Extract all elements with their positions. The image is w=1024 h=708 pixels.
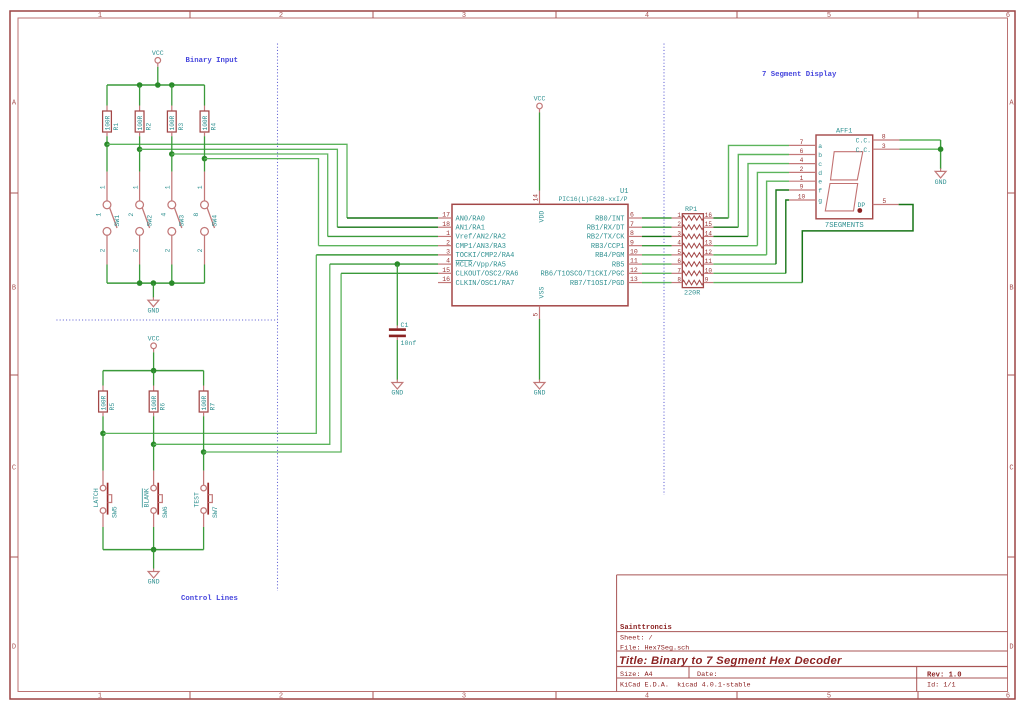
svg-text:GND: GND — [534, 390, 546, 397]
pin 2 CMP1/AN3/RA3 — [438, 239, 506, 251]
svg-text:4: 4 — [677, 240, 681, 247]
wire riser to segment d — [757, 172, 789, 245]
svg-text:C: C — [12, 465, 16, 473]
pin 8 RB2/TX/CK — [587, 230, 642, 242]
wire node to switch SW2 — [139, 149, 141, 171]
svg-text:RB3/CCP1: RB3/CCP1 — [591, 243, 625, 251]
pin stub below SW7 — [203, 513, 205, 527]
wire bottom GND rail (control) — [103, 549, 204, 551]
wire U1 pin 13 to RP1 pin 8 — [642, 282, 672, 284]
svg-text:8: 8 — [193, 213, 200, 217]
junction on control GND rail — [151, 547, 157, 553]
svg-text:10: 10 — [705, 267, 713, 274]
svg-text:2: 2 — [165, 248, 172, 252]
svg-text:Rev: 1.0: Rev: 1.0 — [927, 672, 962, 680]
wire rail to resistor R1 — [106, 85, 108, 106]
svg-text:RB6/T1OSCO/T1CKI/PGC: RB6/T1OSCO/T1CKI/PGC — [540, 271, 624, 279]
svg-text:100R: 100R — [137, 115, 144, 130]
svg-text:GND: GND — [147, 308, 159, 315]
pin 6 RB0/INT — [595, 212, 642, 224]
svg-text:B: B — [12, 285, 16, 293]
junction C.C. node — [938, 146, 944, 152]
svg-text:U1: U1 — [620, 188, 628, 196]
wire node to push button SW5 — [102, 433, 104, 470]
capacitor C1 10nf — [389, 322, 416, 347]
svg-text:1: 1 — [197, 185, 204, 189]
wire into U1 pin 2 — [319, 245, 439, 247]
junction column R1/SW1 node — [104, 142, 110, 148]
svg-text:100R: 100R — [104, 115, 111, 130]
wire U1 pin 7 to RP1 pin 2 — [642, 226, 672, 228]
svg-text:VCC: VCC — [534, 96, 546, 103]
wire push button SW7 to GND rail — [203, 527, 205, 550]
svg-text:6: 6 — [800, 148, 804, 155]
wire switch SW2 to GND rail — [139, 265, 141, 284]
wire BLANK node to U1 riser — [154, 264, 330, 444]
power VCC (binary input) — [152, 50, 164, 67]
pin 17 AN0/RA0 — [438, 212, 485, 224]
svg-text:C.C.: C.C. — [856, 138, 871, 145]
svg-text:6: 6 — [677, 258, 681, 265]
junction node BLANK — [151, 442, 157, 448]
pin 1 Vref/AN2/RA2 — [438, 230, 506, 242]
title block — [617, 575, 1008, 692]
switch SW1 (SPST, weight 1) — [96, 172, 121, 265]
wire push button SW6 to GND rail — [153, 527, 155, 550]
wire resistor R3 to node — [171, 136, 173, 154]
svg-text:6: 6 — [1006, 12, 1010, 20]
svg-text:CLKOUT/OSC2/RA6: CLKOUT/OSC2/RA6 — [456, 271, 519, 279]
svg-text:15: 15 — [442, 267, 450, 274]
svg-text:1: 1 — [165, 185, 172, 189]
svg-text:RP1: RP1 — [685, 206, 697, 214]
svg-text:B: B — [1009, 285, 1013, 293]
pin 4 segment c — [789, 157, 822, 168]
svg-text:1: 1 — [100, 185, 107, 189]
svg-text:C: C — [1009, 465, 1013, 473]
wire riser to segment b — [738, 155, 789, 228]
svg-text:4: 4 — [645, 12, 649, 20]
svg-text:17: 17 — [442, 212, 450, 219]
pin 8 C.C. (top) — [856, 134, 900, 145]
wire riser to segment a — [729, 145, 790, 218]
svg-text:R1: R1 — [113, 123, 120, 131]
svg-text:5: 5 — [882, 198, 886, 205]
svg-text:Date:: Date: — [697, 671, 717, 679]
svg-text:e: e — [818, 179, 822, 186]
svg-text:4: 4 — [645, 693, 649, 701]
svg-text:RB0/INT: RB0/INT — [595, 215, 624, 223]
svg-text:100R: 100R — [100, 395, 107, 410]
svg-text:R4: R4 — [211, 123, 218, 131]
wire top VCC rail (control) — [103, 370, 204, 372]
wire binary node 8 to U1 riser — [205, 159, 319, 246]
switch SW2 (SPST, weight 2) — [128, 172, 153, 265]
svg-text:2: 2 — [677, 221, 681, 228]
svg-text:5: 5 — [827, 12, 831, 20]
svg-text:c: c — [818, 161, 822, 168]
decimal point dot — [857, 208, 862, 213]
wire RP1 pin 15 to riser b — [713, 226, 738, 228]
svg-text:R2: R2 — [146, 123, 153, 131]
svg-text:5: 5 — [827, 693, 831, 701]
svg-text:100R: 100R — [151, 395, 158, 410]
svg-text:GND: GND — [391, 390, 403, 397]
section divider line (horizontal) — [56, 319, 277, 321]
svg-text:15: 15 — [705, 221, 713, 228]
wire GND stem (control) — [153, 550, 155, 569]
svg-text:2: 2 — [279, 12, 283, 20]
pin 13 RB7/T1OSI/PGD — [570, 276, 642, 288]
power VCC (control lines) — [148, 336, 160, 353]
wire into U1 pin 3 — [316, 254, 438, 256]
switch SW4 (SPST, weight 8) — [193, 172, 218, 265]
svg-text:Vref/AN2/RA2: Vref/AN2/RA2 — [456, 234, 506, 242]
svg-text:9: 9 — [705, 277, 709, 284]
svg-text:13: 13 — [630, 276, 638, 283]
RP1 element pin 4 / pin 13 — [672, 240, 714, 248]
svg-text:Sainttroncis: Sainttroncis — [620, 624, 672, 632]
svg-text:12: 12 — [630, 267, 638, 274]
wire U1 pin 10 to RP1 pin 5 — [642, 254, 672, 256]
svg-text:1: 1 — [98, 12, 102, 20]
wire RP1 pin 12 to riser e — [713, 254, 766, 256]
switch SW3 (SPST, weight 4) — [160, 172, 185, 265]
svg-text:14: 14 — [705, 230, 713, 237]
wire node to push button SW7 — [203, 452, 205, 471]
pin 15 CLKOUT/OSC2/RA6 — [438, 267, 519, 279]
svg-text:VCC: VCC — [148, 336, 160, 343]
svg-text:Binary Input: Binary Input — [186, 57, 239, 65]
pin 7 RB1/RX/DT — [587, 221, 642, 233]
svg-text:SW5: SW5 — [112, 506, 119, 518]
svg-text:SW4: SW4 — [211, 215, 218, 227]
wire RP1 pin 10 to riser g — [713, 272, 785, 274]
wire resistor R6 to node — [153, 416, 155, 444]
push button SW5 (LATCH) — [93, 471, 119, 518]
ground GND (control lines) — [148, 569, 160, 586]
RP1 element pin 2 / pin 15 — [672, 221, 714, 229]
svg-text:LATCH: LATCH — [93, 488, 100, 507]
svg-text:2: 2 — [197, 248, 204, 252]
pin 2 segment d — [789, 166, 822, 177]
wire U1 pin 5 to GND — [539, 319, 541, 380]
wire riser to segment f — [776, 190, 789, 264]
resistor R3 100R — [167, 106, 184, 137]
svg-text:8: 8 — [630, 230, 634, 237]
svg-text:AN1/RA1: AN1/RA1 — [456, 225, 485, 233]
svg-text:10: 10 — [630, 248, 638, 255]
svg-text:SW2: SW2 — [146, 215, 153, 227]
wire RP1 pin 9 toward DP (horizontal) — [713, 282, 802, 284]
svg-text:VDD: VDD — [539, 211, 546, 223]
svg-text:R7: R7 — [210, 403, 217, 411]
svg-text:8: 8 — [677, 277, 681, 284]
RP1 element pin 5 / pin 12 — [672, 249, 714, 257]
svg-text:3: 3 — [446, 248, 450, 255]
pin 3 C.C. (lower) — [856, 143, 900, 154]
push button SW6 (BLANK) — [142, 471, 169, 518]
wire rail to resistor R2 — [139, 85, 141, 106]
svg-text:1: 1 — [98, 693, 102, 701]
svg-text:RB4/PGM: RB4/PGM — [595, 252, 624, 260]
resistor R6 100R — [149, 386, 166, 417]
svg-text:D: D — [12, 644, 16, 652]
wire VCC stem to rail (control) — [153, 352, 155, 370]
ground GND (U1 VSS) — [534, 380, 546, 397]
junction on control VCC rail — [151, 368, 157, 374]
pin stub below SW5 — [102, 513, 104, 527]
wire U1 pin 9 to RP1 pin 4 — [642, 245, 672, 247]
svg-text:DP: DP — [858, 202, 866, 209]
ground GND (display common cathode) — [935, 168, 947, 186]
7-segment figure: lower segment loop — [825, 184, 857, 211]
pin 10 segment g — [789, 194, 822, 205]
svg-text:SW1: SW1 — [114, 215, 121, 227]
wire U1 pin 6 to RP1 pin 1 — [642, 217, 672, 219]
svg-text:100R: 100R — [169, 115, 176, 130]
pin 5 DP — [858, 198, 899, 209]
svg-text:RB2/TX/CK: RB2/TX/CK — [587, 234, 626, 242]
wire into U1 pin 4 — [330, 263, 438, 265]
svg-text:9: 9 — [800, 184, 804, 191]
wire resistor R4 to node — [204, 136, 206, 158]
svg-text:File: Hex7Seg.sch: File: Hex7Seg.sch — [620, 644, 689, 652]
svg-text:1: 1 — [446, 230, 450, 237]
svg-text:4: 4 — [160, 213, 167, 217]
svg-text:12: 12 — [705, 249, 713, 256]
resistor R5 100R — [99, 386, 116, 417]
pin 6 segment b — [789, 148, 822, 159]
svg-text:RB5: RB5 — [612, 261, 625, 269]
wire U1 pin 12 to RP1 pin 7 — [642, 272, 672, 274]
svg-text:KiCad E.D.A. kicad 4.0.1-stab: KiCad E.D.A. kicad 4.0.1-stable — [620, 681, 751, 689]
wire DP loop — [802, 205, 913, 283]
svg-text:CLKIN/OSC1/RA7: CLKIN/OSC1/RA7 — [456, 280, 515, 288]
section divider line (vertical, left) — [277, 44, 279, 592]
svg-text:Id: 1/1: Id: 1/1 — [927, 681, 956, 689]
RP1 element pin 3 / pin 14 — [672, 230, 714, 238]
svg-text:Sheet: /: Sheet: / — [620, 635, 653, 643]
svg-text:GND: GND — [148, 579, 160, 586]
resistor R7 100R — [199, 386, 216, 417]
junction column R2/SW2 node — [137, 147, 143, 153]
wire rail to resistor R7 — [203, 371, 205, 386]
svg-text:g: g — [818, 197, 822, 204]
resistor R2 100R — [135, 106, 152, 137]
ground GND (binary input) — [147, 297, 159, 314]
svg-text:C.C.: C.C. — [856, 147, 871, 154]
svg-text:SW7: SW7 — [212, 506, 219, 518]
pin 9 segment f — [789, 184, 822, 195]
wire resistor R5 to node — [102, 416, 104, 433]
svg-text:GND: GND — [935, 179, 947, 186]
wire VCC to U1 pin 14 — [539, 113, 541, 191]
wire node to switch SW1 — [106, 144, 108, 171]
svg-text:1: 1 — [96, 213, 103, 217]
svg-text:1: 1 — [800, 175, 804, 182]
svg-text:5: 5 — [677, 249, 681, 256]
wire node to switch SW3 — [171, 154, 173, 172]
svg-text:VCC: VCC — [152, 50, 164, 57]
pin 9 RB3/CCP1 — [591, 239, 642, 251]
push button SW7 (TEST) — [194, 471, 220, 518]
wire LATCH node to U1 riser — [103, 255, 316, 434]
wire rail to resistor R5 — [102, 371, 104, 386]
wire C1 bottom to GND — [396, 340, 398, 380]
svg-text:C1: C1 — [401, 322, 409, 329]
junction node LATCH — [100, 431, 106, 437]
svg-text:100R: 100R — [201, 395, 208, 410]
svg-text:RB7/T1OSI/PGD: RB7/T1OSI/PGD — [570, 280, 625, 288]
svg-text:4: 4 — [800, 157, 804, 164]
wire bottom GND rail (binary) — [107, 282, 205, 284]
wire rail to resistor R6 — [153, 371, 155, 386]
svg-text:a: a — [818, 143, 822, 150]
svg-text:D: D — [1009, 644, 1013, 652]
svg-text:AN0/RA0: AN0/RA0 — [456, 215, 485, 223]
pin 7 segment a — [789, 139, 822, 150]
svg-text:8: 8 — [882, 134, 886, 141]
svg-text:PIC16(L)F628-xxI/P: PIC16(L)F628-xxI/P — [558, 196, 627, 203]
svg-text:16: 16 — [442, 276, 450, 283]
svg-text:BLANK: BLANK — [144, 488, 151, 507]
junction on GND rail at GND stem — [151, 280, 157, 286]
resistor pack RP1 220R — [682, 206, 703, 298]
svg-text:3: 3 — [462, 12, 466, 20]
wire rail to resistor R3 — [171, 85, 173, 106]
svg-text:R5: R5 — [109, 403, 116, 411]
pin 10 RB4/PGM — [595, 248, 642, 260]
svg-text:AFF1: AFF1 — [836, 128, 852, 136]
wire C1 top — [396, 264, 398, 325]
pin stub below SW6 — [153, 513, 155, 527]
wire switch SW1 to GND rail — [106, 265, 108, 284]
pin 14 VDD (top) — [533, 191, 546, 223]
pin 5 VSS (bottom) — [533, 287, 546, 319]
resistor R1 100R — [103, 106, 120, 137]
wire binary node 4 to U1 riser — [172, 154, 328, 236]
svg-text:2: 2 — [800, 166, 804, 173]
wire riser to segment c — [748, 164, 789, 237]
svg-text:Control Lines: Control Lines — [181, 595, 238, 603]
svg-text:1: 1 — [677, 212, 681, 219]
wire into U1 pin 17 — [347, 217, 438, 219]
resistor R4 100R — [200, 106, 217, 137]
7-segment figure: upper segment loop — [831, 152, 863, 180]
power VCC (U1 VDD) — [534, 96, 546, 113]
svg-text:11: 11 — [705, 258, 713, 265]
wire VCC stem to rail — [157, 67, 159, 85]
svg-text:Size: A4: Size: A4 — [620, 671, 653, 679]
RP1 element pin 6 / pin 11 — [672, 258, 714, 266]
svg-text:10nf: 10nf — [401, 340, 417, 347]
junction on VCC rail at VCC stem — [155, 82, 161, 88]
svg-text:2: 2 — [279, 693, 283, 701]
svg-text:7 Segment Display: 7 Segment Display — [762, 71, 837, 79]
svg-text:13: 13 — [705, 240, 713, 247]
junction column R3/SW3 node — [169, 151, 175, 157]
wire switch SW3 to GND rail — [171, 265, 173, 284]
wire node to push button SW6 — [153, 444, 155, 470]
svg-text:7: 7 — [630, 221, 634, 228]
junction on VCC rail at R2 — [137, 82, 143, 88]
svg-text:2: 2 — [100, 248, 107, 252]
svg-text:6: 6 — [1006, 693, 1010, 701]
wire RP1 pin 14 to riser c — [713, 235, 748, 237]
svg-text:100R: 100R — [202, 115, 209, 130]
wire binary node 1 to U1 riser — [107, 144, 347, 218]
wire RP1 pin 11 to riser f — [713, 263, 776, 265]
wire C.C. pin 8 to GND — [900, 139, 941, 141]
svg-text:16: 16 — [705, 212, 713, 219]
wire top VCC rail — [107, 84, 205, 86]
pin 12 RB6/T1OSCO/T1CKI/PGC — [540, 267, 642, 279]
wire riser to segment g — [786, 200, 789, 273]
junction MCLR / C1 node — [395, 261, 401, 267]
svg-text:Title: Binary to 7 Segment Hex: Title: Binary to 7 Segment Hex Decoder — [619, 655, 842, 667]
wire RP1 pin 16 to riser a — [713, 217, 728, 219]
wire binary node 2 to U1 riser — [140, 149, 338, 227]
wire GND stem (binary) — [152, 283, 154, 297]
svg-text:4: 4 — [446, 258, 450, 265]
svg-text:R3: R3 — [178, 123, 185, 131]
pin 1 segment e — [789, 175, 822, 186]
svg-text:14: 14 — [533, 194, 540, 202]
svg-text:9: 9 — [630, 239, 634, 246]
junction on GND rail at SW3 — [169, 280, 175, 286]
wire into U1 pin 18 — [337, 226, 438, 228]
svg-text:3: 3 — [677, 230, 681, 237]
svg-text:18: 18 — [442, 221, 450, 228]
svg-text:2: 2 — [128, 213, 135, 217]
wire U1 pin 11 to RP1 pin 6 — [642, 263, 672, 265]
wire rail to resistor R4 — [204, 85, 206, 106]
pin 16 CLKIN/OSC1/RA7 — [438, 276, 514, 288]
wire resistor R1 to node — [106, 136, 108, 144]
junction column R4/SW4 node — [202, 156, 208, 162]
RP1 element pin 7 / pin 10 — [672, 267, 714, 275]
wire U1 pin 8 to RP1 pin 3 — [642, 235, 672, 237]
svg-text:R6: R6 — [160, 403, 167, 411]
svg-text:MCLR/Vpp/RA5: MCLR/Vpp/RA5 — [456, 261, 506, 269]
junction node TEST — [201, 449, 207, 455]
wire C.C. vertical to GND — [940, 140, 942, 169]
svg-text:CMP1/AN3/RA3: CMP1/AN3/RA3 — [456, 243, 506, 251]
svg-text:10: 10 — [798, 194, 806, 201]
svg-text:TOCKI/CMP2/RA4: TOCKI/CMP2/RA4 — [456, 252, 515, 260]
svg-text:f: f — [818, 187, 822, 194]
junction on VCC rail at R3 — [169, 82, 175, 88]
svg-text:3: 3 — [882, 143, 886, 150]
svg-text:RB1/RX/DT: RB1/RX/DT — [587, 225, 625, 233]
svg-text:d: d — [818, 170, 822, 177]
svg-text:VSS: VSS — [539, 287, 546, 299]
svg-text:7: 7 — [800, 139, 804, 146]
wire switch SW4 to GND rail — [204, 265, 206, 284]
svg-text:SW6: SW6 — [162, 506, 169, 518]
svg-text:b: b — [818, 152, 822, 159]
svg-text:7SEGMENTS: 7SEGMENTS — [825, 222, 864, 230]
svg-text:6: 6 — [630, 212, 634, 219]
wire RP1 pin 13 to riser d — [713, 245, 757, 247]
wire into U1 pin 1 — [328, 235, 438, 237]
junction on GND rail at SW2 — [137, 280, 143, 286]
svg-text:1: 1 — [132, 185, 139, 189]
pin 11 RB5 — [612, 258, 642, 270]
pin 3 TOCKI/CMP2/RA4 — [438, 248, 514, 260]
svg-text:TEST: TEST — [194, 492, 201, 508]
